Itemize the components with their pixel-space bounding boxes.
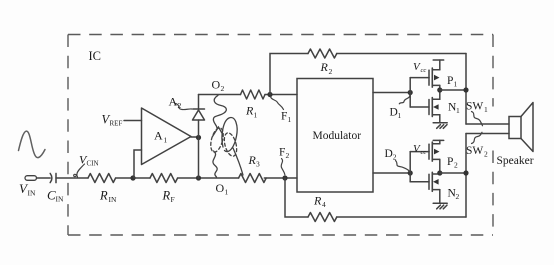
svg-text:1: 1 [456, 106, 460, 115]
annotation squiggle from O2 [213, 95, 226, 128]
speaker driver box [509, 117, 521, 139]
svg-text:R: R [313, 194, 322, 208]
transistor P2 PMOS [429, 140, 440, 173]
svg-text:SW: SW [466, 100, 483, 112]
wire op-amp output [191, 136, 199, 138]
svg-text:2: 2 [221, 84, 225, 93]
wire SW2 to speaker lower [466, 133, 509, 135]
node P1N1 output [437, 87, 442, 92]
wire R3 to modulator F2 [264, 177, 297, 179]
wire CIN to RIN [56, 177, 88, 179]
pointer squiggle A2 [176, 104, 193, 110]
wire F2 down to R4 [285, 178, 308, 217]
node F2 [282, 175, 287, 180]
svg-text:F: F [171, 195, 175, 204]
svg-text:Modulator: Modulator [313, 130, 362, 142]
wire gate bus lower [409, 152, 411, 182]
wire RIN to RF [116, 177, 150, 179]
svg-text:R: R [99, 189, 108, 203]
svg-text:1: 1 [288, 115, 292, 124]
wire modulator D2 to gates [373, 172, 410, 174]
transistor P1 PMOS [429, 60, 440, 90]
svg-text:R: R [320, 60, 329, 74]
input sine-wave source symbol [19, 131, 46, 157]
speaker cone [521, 103, 533, 152]
svg-text:2: 2 [454, 161, 458, 170]
pointer squiggle F2 [281, 159, 285, 175]
svg-text:IN: IN [28, 189, 36, 198]
resistor R3 [239, 174, 267, 183]
svg-text:IC: IC [89, 49, 102, 63]
svg-text:1: 1 [484, 105, 488, 114]
svg-text:R: R [162, 189, 171, 203]
node F1 [267, 92, 272, 97]
resistor R1 [241, 90, 266, 99]
wire P1N1 output to bus [440, 89, 466, 91]
annotation loop [222, 117, 237, 151]
wire SW1 to speaker upper [466, 123, 509, 125]
capacitor CIN curved plate [50, 173, 52, 182]
node SW2 bus junction [463, 170, 468, 175]
annotation caret [213, 127, 224, 137]
svg-text:2: 2 [286, 151, 290, 160]
annotation dashed ellipse left [208, 127, 225, 154]
svg-text:1: 1 [254, 110, 258, 119]
wire terminal to CIN [37, 177, 51, 179]
wire R1 to modulator F1 [199, 94, 241, 96]
svg-text:A: A [169, 95, 178, 109]
IC dashed boundary box [68, 35, 493, 236]
svg-text:cc: cc [421, 67, 427, 74]
capacitor CIN straight plate [55, 173, 57, 182]
node P2N2 output [437, 170, 442, 175]
svg-text:Speaker: Speaker [497, 155, 534, 167]
transistor N1 NMOS [429, 90, 440, 123]
annotation loop tail [233, 148, 243, 175]
svg-text:4: 4 [322, 200, 326, 209]
wire output node down to O1 rail [198, 120, 200, 178]
svg-text:2: 2 [456, 192, 460, 201]
input terminal plug VIN [25, 176, 37, 181]
wire R2 bus down to SW1 [465, 54, 467, 125]
svg-text:2: 2 [329, 67, 333, 76]
wire F1 up to R2 [270, 54, 308, 95]
ground N2 [433, 203, 447, 209]
svg-text:1: 1 [225, 188, 229, 197]
Vcc supply bar lower [433, 139, 444, 141]
svg-text:O: O [212, 78, 221, 92]
node D1 [408, 90, 413, 95]
pointer squiggle F1 [271, 97, 284, 110]
pointer squiggle VCIN [74, 164, 85, 178]
wire gate bus upper [409, 78, 411, 107]
svg-text:2: 2 [393, 153, 397, 162]
annotation squiggle to O1 [213, 151, 217, 177]
svg-text:F: F [281, 111, 287, 123]
svg-text:O: O [216, 181, 225, 195]
svg-text:1: 1 [454, 80, 458, 89]
resistor R2 [308, 49, 337, 58]
node feedback junction [130, 175, 135, 180]
wire modulator D1 to gates [373, 92, 410, 94]
svg-text:SW: SW [466, 145, 483, 157]
node op-amp output bottom [196, 175, 201, 180]
svg-text:P: P [447, 156, 453, 168]
wire P2N2 output to bus [440, 172, 466, 174]
svg-text:3: 3 [256, 160, 260, 169]
wire diode up to O2 rail [198, 95, 200, 110]
pointer squiggle SW2 [472, 132, 483, 143]
resistor RF [150, 174, 178, 183]
pointer squiggle D2 [396, 161, 411, 172]
node op-amp output [196, 135, 201, 140]
modulator block [297, 79, 373, 193]
svg-text:cc: cc [421, 149, 427, 156]
ground N1 [433, 123, 447, 129]
wire VREF to op-amp [124, 120, 142, 122]
svg-text:IN: IN [56, 195, 64, 204]
svg-text:2: 2 [178, 101, 182, 110]
diode A2 [193, 110, 205, 120]
node SW1 bus junction [463, 87, 468, 92]
wire RF to R3 [178, 177, 239, 179]
svg-text:REF: REF [110, 120, 123, 128]
annotation dashed ellipse right [222, 131, 239, 157]
svg-text:P: P [447, 75, 453, 87]
transistor N2 NMOS [429, 172, 440, 203]
svg-text:1: 1 [398, 111, 402, 120]
wire R2 to output bus [337, 53, 466, 55]
pointer squiggle SW1 [472, 112, 483, 126]
wire R4 bus up to SW2 [465, 134, 467, 218]
resistor R4 [308, 213, 337, 222]
svg-text:A: A [154, 129, 163, 143]
op-amp A1 [142, 108, 192, 165]
svg-text:D: D [385, 148, 393, 160]
Vcc supply bar upper [433, 59, 444, 61]
svg-text:1: 1 [164, 136, 168, 145]
resistor RIN [88, 174, 116, 183]
pointer squiggle D1 [399, 95, 410, 104]
svg-text:CIN: CIN [87, 160, 99, 168]
node D2 [408, 170, 413, 175]
wire R4 to output bus [337, 216, 466, 218]
svg-text:2: 2 [484, 150, 488, 159]
svg-text:F: F [279, 147, 285, 159]
svg-text:IN: IN [109, 195, 117, 204]
wire inverting-input feedback [134, 150, 142, 178]
